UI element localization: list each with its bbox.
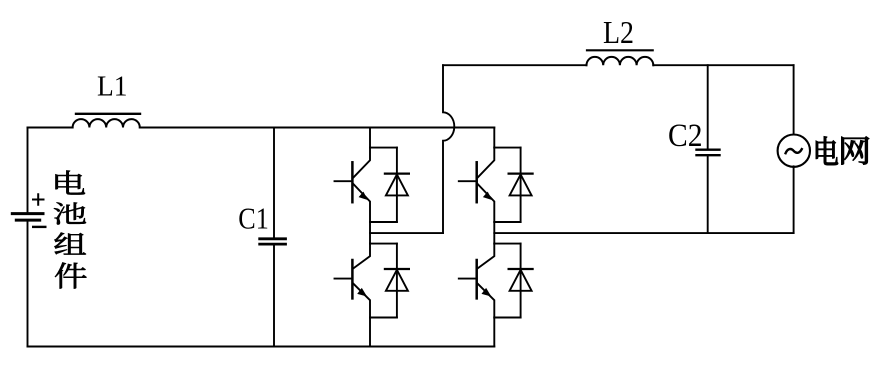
- label C2: [668, 118, 703, 154]
- wire left leg bottom stub: [369, 318, 371, 347]
- label 电池组件 (battery pack), vertical: [54, 171, 87, 289]
- diode D3 (anti-parallel): [509, 148, 533, 222]
- wire left-leg midpoint to crossover riser: [370, 232, 443, 234]
- label 电网 (power grid): [816, 137, 869, 166]
- svg-text:C2: C2: [668, 118, 703, 154]
- battery BT1 (电池组件): [12, 214, 43, 221]
- wire Q4 cell top rail: [494, 243, 520, 245]
- wire battery positive lead: [27, 128, 29, 213]
- wire Q2 cell top rail: [370, 243, 397, 245]
- wire top AC line (riser to L2 to grid): [443, 64, 794, 66]
- diode D2 (anti-parallel): [385, 244, 409, 318]
- wire top DC rail (battery/L1 to bridge): [28, 127, 495, 129]
- wire C1 top lead: [273, 128, 275, 238]
- transistor Q4 (IGBT): [459, 244, 495, 318]
- inductor L2: [587, 50, 654, 65]
- battery + polarity mark: [33, 194, 44, 204]
- transistor Q3 (IGBT): [459, 148, 495, 222]
- label L2: [603, 14, 634, 50]
- wire left leg midpoint junction: [369, 222, 371, 244]
- wire crossover riser with hop over DC rail: [443, 65, 454, 233]
- label C1: [238, 201, 268, 236]
- capacitor C1: [260, 239, 286, 244]
- wire Q1 cell top rail: [370, 147, 397, 149]
- wire grid source top lead: [793, 65, 795, 134]
- diode D4 (anti-parallel): [509, 244, 533, 318]
- wire C1 bottom lead: [273, 246, 275, 347]
- wire Q4 cell bottom rail: [494, 317, 520, 319]
- diode D1 (anti-parallel): [385, 148, 409, 222]
- wire right leg midpoint junction: [493, 222, 495, 244]
- wire right leg top stub: [493, 128, 495, 148]
- AC source G1 (grid): [778, 135, 810, 167]
- wire bottom DC rail: [28, 346, 495, 348]
- transistor Q2 (IGBT): [335, 244, 371, 318]
- wire grid source bottom lead: [793, 166, 795, 233]
- wire battery negative lead: [27, 221, 29, 346]
- wire C2 bottom lead: [707, 156, 709, 233]
- battery - polarity mark: [33, 226, 45, 228]
- wire right leg bottom stub: [493, 318, 495, 347]
- svg-text:C1: C1: [238, 201, 268, 236]
- capacitor C2: [697, 150, 720, 156]
- wire left leg top stub: [369, 128, 371, 148]
- svg-text:L2: L2: [603, 14, 634, 50]
- wire Q3 cell top rail: [494, 147, 520, 149]
- wire right-leg midpoint to grid (bottom AC line): [494, 232, 793, 234]
- label L1: [97, 72, 128, 103]
- wire C2 top lead: [707, 65, 709, 148]
- wire Q2 cell bottom rail: [370, 317, 397, 319]
- svg-text:L1: L1: [97, 72, 128, 103]
- inductor L1: [73, 114, 140, 128]
- wire Q3 cell bottom rail: [494, 221, 520, 223]
- wire Q1 cell bottom rail: [370, 221, 397, 223]
- transistor Q1 (IGBT): [335, 148, 371, 222]
